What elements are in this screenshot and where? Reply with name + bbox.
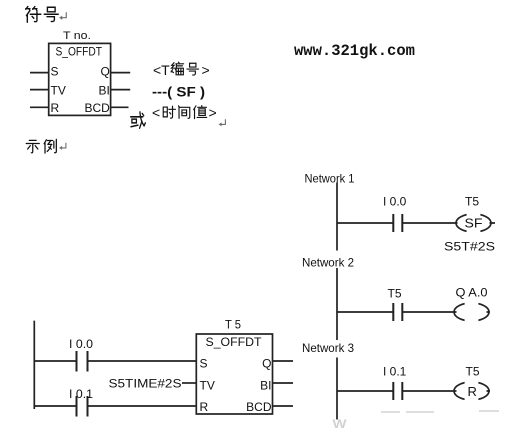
svg-text:Network 3: Network 3	[302, 341, 354, 355]
svg-text:SF: SF	[465, 216, 483, 231]
svg-text:S_OFFDT: S_OFFDT	[206, 335, 263, 349]
svg-text:Network 2: Network 2	[302, 256, 354, 270]
svg-text:R: R	[200, 400, 209, 414]
svg-text:Q: Q	[100, 65, 109, 79]
svg-text:T5: T5	[465, 195, 479, 209]
svg-text:T 5: T 5	[225, 318, 241, 332]
svg-text:<T: <T	[153, 62, 170, 78]
svg-text:BI: BI	[260, 378, 271, 392]
svg-text:Q: Q	[262, 356, 271, 370]
svg-text:BCD: BCD	[246, 400, 272, 414]
svg-text:S: S	[51, 65, 59, 79]
svg-text:I 0.1: I 0.1	[383, 365, 407, 379]
svg-text:TV: TV	[200, 378, 215, 392]
svg-text:T5: T5	[388, 287, 402, 301]
svg-text:>: >	[202, 62, 210, 78]
svg-text:S5T#2S: S5T#2S	[444, 240, 495, 254]
svg-text:>: >	[209, 105, 217, 121]
svg-text:<: <	[152, 105, 160, 121]
svg-text:S_OFFDT: S_OFFDT	[56, 45, 103, 59]
svg-text:T5: T5	[466, 365, 480, 379]
svg-text:BI: BI	[98, 83, 109, 97]
svg-text:S: S	[200, 356, 208, 370]
svg-text:Q A.0: Q A.0	[456, 286, 488, 300]
svg-text:S5TIME#2S: S5TIME#2S	[109, 376, 182, 390]
svg-text:www.321gk.com: www.321gk.com	[294, 42, 415, 60]
svg-text:I 0.0: I 0.0	[69, 337, 93, 351]
svg-text:R: R	[468, 384, 477, 399]
svg-text:I 0.1: I 0.1	[69, 387, 93, 401]
svg-text:Network 1: Network 1	[305, 172, 355, 186]
svg-text:---( SF ): ---( SF )	[152, 84, 205, 100]
svg-text:BCD: BCD	[84, 101, 110, 115]
svg-text:TV: TV	[51, 83, 66, 97]
svg-text:I 0.0: I 0.0	[383, 195, 407, 209]
svg-text:R: R	[51, 101, 60, 115]
svg-text:W: W	[333, 417, 348, 431]
svg-text:T no.: T no.	[63, 30, 91, 42]
